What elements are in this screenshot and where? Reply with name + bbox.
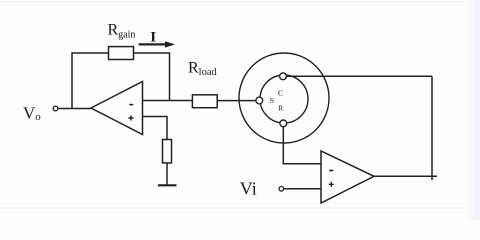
page edge top	[0, 1, 480, 2]
wire Rload to pot terminal S	[217, 100, 256, 102]
wire feedback riser	[71, 53, 73, 109]
wire noninverting input	[143, 117, 168, 141]
svg-text:I: I	[150, 30, 156, 46]
wire Vo terminal to op-amp U1 output	[58, 108, 91, 110]
wire feedback top right segment	[134, 52, 171, 54]
node Vi terminal	[279, 187, 284, 192]
svg-text:C: C	[278, 89, 283, 98]
resistor Rgain	[109, 47, 134, 60]
resistor Rload	[192, 95, 217, 108]
op-amp U2	[321, 151, 374, 203]
node Vo terminal	[53, 106, 58, 111]
svg-text:S: S	[270, 96, 274, 105]
wire inverting input to Rload	[143, 100, 193, 102]
ground	[158, 184, 177, 186]
wire right vertical	[431, 76, 433, 180]
potentiometer P1 inner circle	[260, 75, 308, 123]
svg-text:Vi: Vi	[240, 179, 257, 199]
page edge bottom	[0, 208, 480, 209]
svg-text:R: R	[278, 104, 284, 113]
terminal C	[280, 73, 287, 80]
wire feedback down to inverting input	[169, 53, 171, 101]
wire terminal R to U2 inverting input	[283, 127, 321, 164]
wire op-amp U2 output	[374, 175, 437, 177]
potentiometer P1 outer circle	[239, 53, 329, 143]
wire Vi terminal to U2 noninverting input	[284, 188, 321, 190]
op-amp U1	[91, 82, 143, 135]
wire R1 to ground	[166, 163, 168, 185]
wire terminal C to right vertical	[286, 75, 432, 77]
resistor R1	[163, 140, 172, 163]
terminal S	[256, 97, 263, 104]
terminal R	[280, 120, 287, 127]
current arrow I	[139, 41, 175, 47]
wire feedback top left segment	[71, 52, 108, 54]
